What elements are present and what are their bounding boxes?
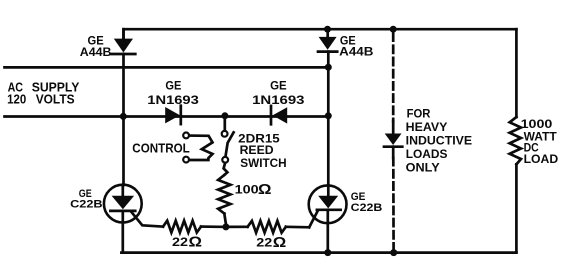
label GE 1N1693 left (147, 80, 199, 107)
svg-text:Ω: Ω (189, 234, 203, 250)
svg-text:REED: REED (240, 145, 274, 157)
wire reed switch lower lead (224, 163, 228, 175)
diode D2 GE A44B anode lead (326, 29, 329, 37)
node junction dot I (bottom bus / dashed branch) (390, 249, 397, 256)
diode D4 GE 1N1693 (271, 106, 287, 124)
control coil winding (189, 136, 212, 160)
label GE 1N1693 right (252, 80, 304, 107)
diode D2 GE A44B (318, 37, 337, 52)
svg-text:HEAVY: HEAVY (406, 120, 448, 134)
label FOR HEAVY INDUCTIVE LOADS ONLY (406, 107, 472, 175)
node junction dot D (ac line 1 / right branch) (325, 64, 332, 71)
svg-text:1N1693: 1N1693 (147, 95, 199, 107)
diode D1 GE A44B anode lead (122, 29, 125, 39)
svg-text:ONLY: ONLY (406, 161, 440, 175)
wire top bus (124, 29, 517, 39)
control terminal upper (183, 133, 189, 139)
SCR Q1 GE C22B envelope (104, 185, 142, 223)
wire dashed branch lower (392, 158, 395, 253)
svg-text:C22B: C22B (70, 198, 103, 210)
label AC SUPPLY 120 VOLTS (7, 80, 80, 106)
diode D5 cathode lead (392, 147, 395, 158)
wire right rail lower (515, 164, 518, 252)
svg-text:INDUCTIVE: INDUCTIVE (406, 133, 472, 147)
svg-text:LOADS: LOADS (406, 147, 448, 161)
svg-text:A44B: A44B (80, 47, 112, 59)
SCR Q1 triangle (112, 196, 135, 210)
node junction dot A (left branch / ac line 2) (120, 113, 127, 120)
SCR Q1 cathode bar (110, 210, 135, 213)
resistor R1 22 ohm (163, 221, 201, 233)
svg-text:1N1693: 1N1693 (252, 95, 304, 107)
svg-text:22: 22 (256, 236, 272, 250)
SCR Q1 gate lead (132, 213, 163, 227)
node junction dot F (gate bus / 100 ohm) (222, 223, 229, 230)
svg-text:120: 120 (7, 92, 26, 106)
diode D5 freewheel (384, 134, 402, 147)
SCR Q2 anode lead inside (327, 186, 330, 197)
wire right rail upper (515, 29, 518, 117)
svg-text:VOLTS: VOLTS (36, 92, 75, 106)
label GE A44B left (80, 35, 112, 59)
label 2DR15 REED SWITCH (238, 133, 286, 170)
wire dashed branch upper (392, 34, 395, 122)
SCR Q2 triangle (318, 196, 338, 209)
SCR Q2 cathode bar (317, 208, 341, 211)
wire gate bus right (226, 225, 248, 228)
reed switch S1 contact lower (222, 157, 228, 163)
resistor RL 1000 watt dc load (510, 117, 521, 164)
svg-text:LOAD: LOAD (524, 152, 559, 166)
svg-text:100: 100 (235, 183, 259, 197)
control terminal lower (183, 157, 189, 163)
svg-text:22: 22 (172, 235, 188, 249)
node junction dot C (top bus / diode D2) (324, 26, 331, 33)
label GE C22B left (70, 188, 103, 210)
svg-text:SWITCH: SWITCH (240, 158, 286, 170)
wire ac line 2 (5, 115, 329, 118)
wire ac line 1 (5, 66, 329, 69)
svg-text:Ω: Ω (273, 235, 287, 251)
node junction dot G (bottom bus / SCR Q2) (324, 249, 331, 256)
svg-text:GE: GE (88, 35, 105, 47)
SCR Q2 cathode lead (326, 210, 329, 253)
svg-text:FOR: FOR (407, 107, 431, 121)
svg-text:GE: GE (351, 191, 366, 203)
label GE A44B right (339, 35, 373, 58)
SCR Q2 gate lead (309, 211, 317, 227)
resistor R2 22 ohm (248, 221, 286, 233)
resistor R3 100 ohm (218, 175, 230, 214)
svg-text:GE: GE (165, 80, 181, 92)
SCR Q1 anode lead inside (121, 185, 124, 197)
SCR Q1 cathode lead (121, 211, 124, 253)
wire left branch (diode D1 to SCR Q1) (122, 54, 125, 185)
svg-text:A44B: A44B (339, 46, 373, 58)
diode D3 GE 1N1693 (165, 106, 181, 124)
label GE C22B right (351, 191, 383, 214)
wire bottom bus (121, 251, 516, 254)
node junction dot E (ac line 2 / right branch) (325, 112, 332, 119)
wire gate bus left (201, 225, 226, 228)
wire gate bus to SCR Q2 (286, 225, 309, 228)
reed switch S1 contact upper (222, 131, 228, 137)
wire reed switch stub (223, 116, 226, 131)
diode D1 GE A44B (112, 39, 136, 54)
svg-text:Ω: Ω (258, 182, 272, 198)
svg-text:GE: GE (270, 80, 287, 92)
value label 1000 WATT DC LOAD (521, 117, 559, 166)
reed switch S1 blade (226, 132, 234, 156)
diode D5 freewheel anode lead (392, 122, 395, 135)
svg-text:2DR15: 2DR15 (238, 133, 280, 145)
node junction dot H (top bus / dashed branch) (390, 26, 397, 33)
svg-text:C22B: C22B (351, 202, 383, 214)
node junction dot B (reed switch tap on ac line 2) (221, 112, 228, 119)
wire right branch (diode D2 to SCR Q2) (327, 52, 330, 186)
wire 100 ohm lower lead (224, 214, 226, 224)
svg-text:CONTROL: CONTROL (132, 140, 190, 155)
SCR Q2 GE C22B envelope (309, 185, 347, 223)
